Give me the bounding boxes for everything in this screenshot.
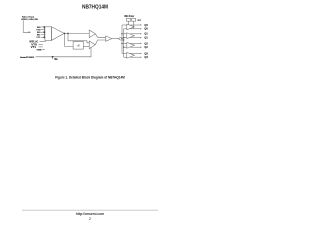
label CML Driver — [124, 15, 134, 18]
driver U8 row Q3 — [122, 52, 142, 58]
input buffer amplifier — [52, 27, 65, 41]
wire tap B bypass to mux — [68, 33, 89, 42]
driver U6 row Q1 — [122, 33, 142, 39]
wire VT1 — [38, 46, 42, 48]
wire mux B out — [95, 40, 106, 45]
wire R2 to output — [133, 21, 135, 29]
label Q2 outputs — [144, 42, 148, 49]
input termination bus — [43, 27, 45, 37]
svg-text:NB7HQ14M: NB7HQ14M — [82, 4, 108, 10]
pin IN1 label — [37, 35, 41, 37]
svg-text:Q1: Q1 — [144, 33, 148, 36]
node tap A — [64, 33, 66, 35]
wire VT0 — [38, 44, 42, 46]
node tap B — [67, 33, 69, 35]
pin SEL label — [54, 59, 58, 61]
svg-text:Q2: Q2 — [144, 46, 148, 49]
pin VT1 label — [36, 37, 41, 39]
wire tap A to divider input — [65, 33, 74, 46]
svg-text:http://onsemi.com: http://onsemi.com — [76, 212, 104, 216]
divider box U2 — [73, 42, 83, 50]
svg-text:VCC: VCC — [137, 20, 142, 22]
svg-text:Figure 1. Detailed Block Diagr: Figure 1. Detailed Block Diagram of NB7H… — [55, 75, 125, 79]
pin IN0 label — [37, 27, 41, 29]
output buffer U4 — [106, 36, 112, 41]
svg-text:Q0: Q0 — [144, 28, 148, 31]
CML output drivers — [122, 24, 148, 59]
pin VT1 label — [31, 46, 37, 49]
wire split to rail true — [119, 38, 123, 39]
footer rule — [22, 209, 158, 211]
label Q1 outputs — [144, 33, 148, 40]
wire split to rail complement — [119, 39, 124, 40]
resistor R2 pullup — [132, 18, 136, 21]
svg-text:VBB: VBB — [37, 49, 42, 51]
wire VT1 — [41, 36, 45, 38]
svg-text:CML Driver: CML Driver — [124, 15, 134, 18]
input stage box — [45, 27, 52, 41]
pin SEL stub — [52, 57, 54, 59]
svg-text:Q1: Q1 — [144, 37, 148, 40]
pin VBB label — [37, 49, 42, 51]
svg-text:Q2: Q2 — [144, 42, 148, 45]
label Q0 outputs — [144, 24, 148, 31]
svg-text:Q3: Q3 — [144, 56, 148, 59]
wire mux A out — [95, 34, 106, 38]
wire divider out — [83, 45, 89, 47]
svg-text:SEL: SEL — [54, 59, 58, 61]
note: standard TTL CMOS text — [20, 56, 35, 59]
pin VREF_AC label — [29, 40, 38, 43]
svg-text:VT1: VT1 — [36, 37, 41, 39]
wire IN0 — [41, 31, 45, 33]
svg-text:LVPECL, LVDS, CML: LVPECL, LVDS, CML — [21, 19, 39, 21]
wire SEL — [36, 47, 92, 56]
pin VT0 label — [31, 43, 37, 46]
wire R1 to output — [127, 21, 129, 25]
rail true — [121, 25, 123, 53]
node junction IN0b — [43, 31, 45, 33]
wire VBB — [42, 49, 45, 51]
label Q3 outputs — [144, 52, 148, 59]
driver U7 row Q2 — [122, 42, 142, 48]
mux buffer B (divided path) — [89, 41, 95, 49]
pin IN0 label — [37, 32, 41, 34]
pin VT0 label — [36, 29, 41, 31]
mux buffer A (IN path) — [89, 30, 95, 38]
wire buffer output — [64, 32, 89, 34]
node SEL junction — [52, 56, 54, 58]
wire VREF_AC — [40, 41, 46, 43]
svg-text:Q3: Q3 — [144, 52, 148, 55]
node rail junctions — [121, 33, 124, 48]
note: high level inputs text — [21, 16, 39, 21]
svg-text:Standard TTL/CMOS: Standard TTL/CMOS — [20, 56, 35, 59]
node junction IN0 — [43, 26, 45, 28]
label VCC — [137, 20, 142, 22]
node junction IN1b — [43, 37, 45, 39]
svg-text:2: 2 — [89, 217, 91, 221]
wire VT0 — [41, 29, 45, 31]
svg-text:÷2: ÷2 — [77, 43, 80, 47]
arrow pointing to inputs — [23, 20, 28, 32]
rail complement — [123, 29, 125, 57]
svg-text:Q0: Q0 — [144, 24, 148, 27]
wire IN1 — [41, 34, 45, 36]
wire IN0 — [41, 26, 45, 28]
driver U5 row Q0 — [122, 24, 142, 30]
wire buffer to rails — [112, 38, 119, 40]
resistor R1 pullup — [126, 18, 130, 21]
